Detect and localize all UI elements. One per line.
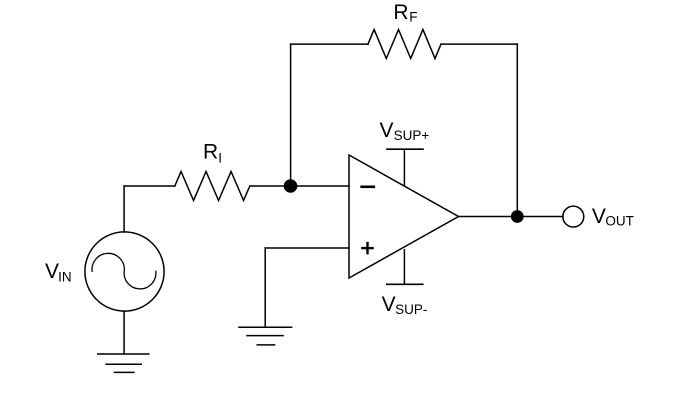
wire non-inverting input horizontal (265, 247, 349, 249)
op-amp minus input sign (362, 186, 374, 189)
label RI (203, 141, 222, 166)
wire feedback right vertical (down to output node) (516, 44, 518, 216)
svg-text:V: V (380, 119, 394, 142)
wire feedback top left (291, 43, 368, 45)
wire VIN top vertical (123, 186, 125, 232)
power rail VSUP- (387, 250, 423, 284)
label VSUP+ (380, 119, 430, 143)
resistor RF (368, 30, 441, 59)
svg-text:SUP+: SUP+ (394, 128, 430, 143)
resistor RI (175, 172, 250, 201)
svg-text:R: R (203, 141, 218, 164)
wire feedback top right (441, 43, 517, 45)
power rail VSUP+ (387, 149, 423, 186)
ground (below VIN) (98, 354, 149, 372)
op-amp U1 (349, 155, 459, 278)
wire op-amp output (459, 216, 564, 218)
ground (non-inverting input) (239, 327, 292, 345)
svg-text:R: R (393, 1, 408, 24)
svg-text:SUP-: SUP- (395, 302, 427, 317)
wire non-inverting input vertical (264, 248, 266, 327)
svg-text:V: V (45, 260, 59, 283)
svg-text:V: V (382, 293, 396, 316)
voltage source VIN (85, 232, 164, 311)
svg-text:I: I (218, 150, 222, 165)
svg-text:F: F (409, 10, 417, 25)
wire VIN bottom vertical (123, 311, 125, 354)
wire feedback left vertical (node A up to RF loop) (290, 44, 292, 186)
svg-text:IN: IN (58, 269, 72, 284)
output terminal circle (563, 206, 584, 227)
label RF (393, 1, 417, 25)
output node junction dot (511, 210, 524, 223)
label VSUP- (382, 293, 428, 317)
svg-text:V: V (592, 205, 606, 228)
label VIN (45, 260, 72, 285)
wire VIN to RI (124, 185, 175, 187)
wire RI to op-amp inverting input (250, 185, 349, 187)
op-amp plus input sign (362, 243, 372, 253)
svg-text:OUT: OUT (605, 214, 634, 229)
node A junction dot (inverting input) (284, 179, 298, 193)
label VOUT (592, 205, 634, 229)
